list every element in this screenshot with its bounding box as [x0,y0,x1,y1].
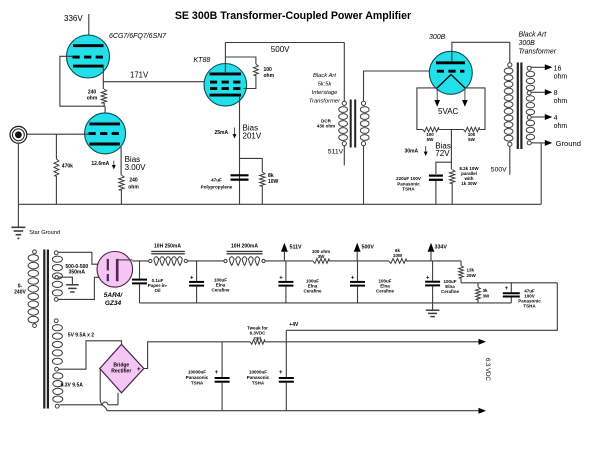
svg-text:Oil: Oil [154,288,160,293]
svg-text:TSHA: TSHA [191,381,204,386]
wire rail down to IT primary [343,43,345,102]
ground symbol CT [66,284,79,286]
svg-text:72V: 72V [435,149,450,158]
tap 16 ohm [531,66,545,68]
wire jack sleeve down [17,143,19,227]
capacitor 10000uF no2 [279,377,294,379]
resistor 8.2k bias [450,170,455,184]
svg-text:500V: 500V [271,45,290,54]
wire 171V output [103,81,210,83]
rail 100ohm to 6k [329,260,389,262]
tube V3 300B [429,51,472,94]
wire 6.3V top to bridge [59,341,122,369]
svg-text:10H 250mA: 10H 250mA [154,243,181,249]
wire +4V node vertical [285,330,287,377]
node 511V [281,243,288,252]
wire filament CT down [450,130,452,170]
rail 500V to interstage [225,42,344,44]
svg-text:Cerafine: Cerafine [376,289,395,294]
svg-text:Panasonic: Panasonic [186,375,209,380]
filament arrows 5VAC [436,89,438,104]
resistor 100 ohm screen [254,64,259,75]
wire V1a grid loop [60,56,104,106]
svg-text:500V: 500V [491,167,507,174]
wire screen feed [225,57,256,64]
svg-text:TSHA: TSHA [523,303,536,308]
svg-text:171V: 171V [130,71,149,80]
resistor 470k input [55,134,57,159]
capacitor 10000uF no1 [221,342,223,377]
tube V1a 6CG7 upper triode [67,35,110,78]
svg-text:13k: 13k [467,268,475,273]
wire input to V1b grid [27,133,89,135]
wire 336V to V1a plate [88,14,90,46]
wire IT secondary bottom to bus [363,146,365,205]
svg-text:TSHA: TSHA [402,187,415,192]
resistor 100 5W right [463,127,479,132]
svg-text:8: 8 [554,90,558,97]
svg-text:out: out [254,335,261,340]
svg-text:5V 9.5A x 2: 5V 9.5A x 2 [68,333,94,339]
rail B+ from rectifier [132,260,149,262]
arrow 25mA current [234,128,236,136]
svg-text:334V: 334V [435,244,448,250]
svg-text:10H 200mA: 10H 200mA [231,243,258,249]
svg-text:+4V: +4V [289,322,299,328]
wire between hum resistors [439,129,464,131]
tube V2 KT88 [204,64,247,107]
interstage transformer primary [342,101,346,105]
svg-text:3.00V: 3.00V [125,163,147,172]
svg-text:+: + [279,276,283,282]
wire bridge minus to rail [99,369,101,399]
svg-text:350mA: 350mA [69,269,86,275]
filament box right [465,88,485,130]
wire HV CT to ground [59,277,73,284]
svg-text:ohm: ohm [264,73,275,79]
tube rectifier 5AR4/GZ34 [97,251,133,287]
svg-text:240V: 240V [14,290,26,296]
power transformer 5V secondary [54,319,58,323]
svg-text:1k 30W: 1k 30W [461,181,477,186]
svg-text:+: + [426,275,430,281]
node 500V [354,243,361,252]
capacitor 100uF no4 [432,261,434,281]
wire 300B plate to OPT [452,42,510,62]
power transformer 6.3V secondary [55,367,59,371]
svg-text:Cerafine: Cerafine [441,289,460,294]
wire KT88 plate [224,43,226,74]
interstage transformer core [350,100,352,148]
stub 511V IT primary [343,146,345,166]
svg-text:Ground: Ground [556,139,581,148]
wire bias cap branch [436,162,452,174]
svg-text:Black Art: Black Art [519,32,548,39]
svg-text:ohm: ohm [554,74,568,81]
svg-text:25W: 25W [467,273,477,278]
resistor 3k 3W [477,283,479,287]
resistor 240 ohm V1b cathode [119,175,124,190]
svg-text:511V: 511V [290,244,303,250]
svg-text:201V: 201V [243,132,262,141]
wire cathode R branch [240,158,263,172]
node 334V [428,243,435,252]
ground symbol PSU [426,309,440,311]
svg-text:3W: 3W [318,254,326,259]
svg-text:+: + [279,370,283,376]
output transformer primary [508,63,512,67]
resistor tweak [250,339,265,344]
svg-text:300B: 300B [519,40,536,47]
tap ground [531,142,545,144]
stub 500V OPT primary [509,146,511,175]
svg-text:+: + [351,276,355,282]
svg-text:TSHA: TSHA [252,381,265,386]
rail choke2 to 100ohm [265,260,313,262]
capacitor 100uF no1 [196,261,198,281]
wire V1a cathode lead [102,67,104,90]
svg-text:240: 240 [129,178,138,184]
svg-text:12.6mA: 12.6mA [91,161,109,167]
wire screen to g2 [244,75,256,88]
svg-text:5k:5k: 5k:5k [318,82,333,88]
ground bus PSU [140,302,512,304]
wire HV bottom to rectifier [58,277,107,299]
svg-text:47uF: 47uF [211,177,222,182]
svg-text:10W: 10W [268,179,279,185]
choke 10H 200mA [227,250,263,252]
svg-text:+: + [505,286,509,292]
svg-text:5W: 5W [427,137,435,142]
tap 8 ohm [531,91,545,93]
svg-text:336V: 336V [64,14,83,23]
resistor 240 ohm SRPP [101,89,106,103]
svg-text:6.3 VDC: 6.3 VDC [484,358,490,381]
input jack [10,126,27,143]
bridge rectifier [100,344,144,393]
svg-text:6.3V 9.5A: 6.3V 9.5A [61,383,84,389]
ground bus [18,203,541,205]
svg-text:220uF 100V: 220uF 100V [396,176,421,181]
rail heater plus [265,341,479,343]
resistor 100 ohm 3W [313,259,329,264]
capacitor 220uF bias [429,175,443,177]
arrow 12.6mA current [113,161,115,167]
interstage transformer secondary [361,101,365,105]
svg-text:3k: 3k [483,288,489,293]
svg-text:5W: 5W [468,137,476,142]
wire IT secondary to 300B grid [364,71,438,101]
svg-text:Rectifier: Rectifier [111,368,131,374]
svg-text:Interstage: Interstage [312,90,339,96]
tap 4 ohm [531,116,545,118]
svg-text:470k: 470k [62,163,73,169]
svg-text:5VAC: 5VAC [438,107,459,116]
tube V1b 6CG7 lower triode [85,113,126,154]
svg-text:ohm: ohm [554,98,568,105]
svg-text:ohm: ohm [87,96,98,102]
svg-text:16: 16 [554,66,562,73]
wire KT88 cathode [239,96,241,204]
rail 6k to 13k [406,260,461,262]
svg-text:6CG7/6FQ7/6SN7: 6CG7/6FQ7/6SN7 [109,33,167,40]
power transformer core [43,250,45,409]
resistor 8k 10W [260,172,265,186]
wire 6.3V bottom to bridge [60,404,103,406]
svg-text:Black Art: Black Art [313,73,336,79]
rail heater minus [107,410,479,412]
svg-text:+: + [215,370,219,376]
resistor 6k 10W [389,259,407,264]
filament box left [417,88,437,130]
resistor 13k 25W [460,261,462,266]
svg-text:10000uF: 10000uF [249,370,267,375]
power transformer HV secondary [54,251,58,255]
svg-text:500V: 500V [362,244,375,250]
svg-text:Polypropylene: Polypropylene [201,184,233,189]
capacitor 0.1uF paper-in-oil [139,261,141,279]
svg-text:300B: 300B [429,34,446,41]
wire bridge plus up [144,342,250,369]
svg-text:430 ohm: 430 ohm [317,124,335,129]
svg-text:4: 4 [554,115,558,122]
svg-text:10000uF: 10000uF [188,370,206,375]
rail choke1 to choke2 [188,260,224,262]
svg-text:Star Ground: Star Ground [29,230,60,236]
svg-text:Panasonic: Panasonic [247,375,270,380]
svg-text:ohm: ohm [554,123,568,130]
svg-text:3W: 3W [483,293,491,298]
svg-text:SE 300B Transformer-Coupled Po: SE 300B Transformer-Coupled Power Amplif… [175,10,411,22]
star ground symbol [11,226,25,228]
svg-text:Cerafine: Cerafine [211,288,230,293]
resistor 100 5W left [423,127,439,132]
wire +4V feedback [286,283,557,331]
capacitor 47uF 100V [510,283,512,293]
svg-text:10W: 10W [393,253,403,258]
wire divider node [461,282,557,284]
wire to V1b plate [103,103,105,107]
svg-text:+: + [190,276,194,282]
svg-text:KT88: KT88 [194,57,211,64]
wire V1b cathode lead [120,147,122,175]
capacitor 100uF no3 [357,261,359,281]
capacitor 47uF polypropylene [231,174,249,176]
power transformer primary [33,250,37,254]
choke 10H 250mA [151,250,185,252]
svg-text:5AR4/: 5AR4/ [104,292,124,299]
output transformer core [517,63,519,150]
arrow 30mA current [425,146,427,153]
wire HV top to rectifier [58,252,107,264]
svg-text:Panasonic: Panasonic [397,181,420,186]
svg-text:Transformer: Transformer [309,99,341,105]
svg-text:ohm: ohm [128,185,139,191]
svg-text:Transformer: Transformer [519,49,557,56]
wire OPT ground tap to bus [540,143,542,204]
svg-text:+: + [137,367,141,373]
capacitor 100uF no2 [285,261,287,281]
svg-text:30mA: 30mA [405,149,419,155]
svg-text:GZ34: GZ34 [105,300,122,307]
svg-text:25mA: 25mA [215,130,229,136]
output transformer secondary [527,66,531,70]
svg-text:511V: 511V [328,148,344,155]
svg-text:Cerafine: Cerafine [303,289,322,294]
